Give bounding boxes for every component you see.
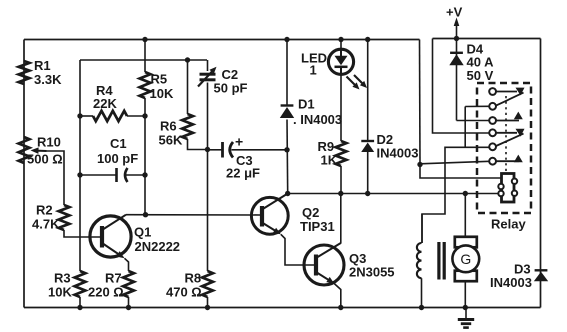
label R3: [54, 271, 71, 286]
svg-text:TIP31: TIP31: [300, 219, 335, 234]
svg-text:Q1: Q1: [134, 225, 151, 240]
node junction bus-R5: [142, 37, 147, 42]
node junction mid-vertical base wire: [143, 212, 148, 217]
svg-text:100 pF: 100 pF: [97, 151, 138, 166]
svg-text:50 V: 50 V: [467, 68, 494, 83]
node junction bus-LED: [338, 37, 343, 42]
label R9: [318, 139, 335, 154]
label R7: [105, 271, 122, 286]
svg-text:22 μF: 22 μF: [226, 166, 260, 181]
label R10: [37, 135, 61, 150]
label D2 value: [377, 146, 419, 161]
node junction C1 right: [142, 172, 147, 177]
label D4 value 50V: [467, 68, 494, 83]
wire left rail: [23, 40, 25, 308]
resistor R3: [75, 271, 86, 297]
label C1: [110, 136, 127, 151]
wire jog to relay coil top: [420, 165, 502, 179]
resistor R6: [182, 114, 193, 139]
relay mechanical linkage: [505, 96, 507, 172]
svg-text:Relay: Relay: [491, 217, 526, 232]
svg-text:470 Ω: 470 Ω: [166, 285, 202, 300]
label Relay: [491, 217, 526, 232]
wiper arrow R10: [31, 147, 47, 154]
relay contact set 2 NC: [496, 129, 525, 137]
wire Q3 emitter to ground: [334, 284, 341, 308]
svg-text:22K: 22K: [93, 96, 117, 111]
svg-text:R8: R8: [185, 271, 202, 286]
wire R10 wiper to R2: [47, 151, 65, 205]
label D3: [514, 262, 531, 277]
inductor ignition coil primary: [417, 214, 422, 308]
wire R7 bottom: [128, 297, 130, 308]
wire box top R4-C2: [80, 59, 207, 61]
label C2: [222, 67, 239, 82]
wire bottom ground bus: [24, 307, 541, 309]
svg-text:IN4003: IN4003: [490, 275, 532, 290]
label Q2 type: [300, 219, 335, 234]
relay contact set 1 NO: [496, 112, 523, 121]
label R5 value: [150, 86, 174, 101]
resistor R2: [59, 205, 70, 230]
wire relay-box left drop to contact row 4: [433, 39, 490, 134]
transistor Q2 TIP31: [251, 194, 288, 235]
svg-text:D1: D1: [298, 97, 315, 112]
relay dashed enclosure: [477, 83, 531, 213]
node junction coil-ground: [419, 305, 424, 310]
wire relay row5 riser to ignition coil: [422, 147, 489, 243]
node junction R6 top: [185, 57, 190, 62]
node junction motor drop: [463, 191, 468, 196]
wire relay rows 2-5 tie: [464, 107, 466, 148]
node junction C1 left: [77, 172, 82, 177]
wire D4 branch: [456, 39, 458, 121]
resistor R5: [140, 72, 151, 98]
svg-text:R1: R1: [34, 58, 51, 73]
wire R2 to Q1 base: [64, 230, 100, 237]
node junction R4 left: [77, 113, 82, 118]
label R1: [34, 58, 51, 73]
svg-text:+: +: [235, 134, 243, 150]
label R6: [160, 119, 177, 134]
diode D2: [361, 141, 374, 152]
svg-text:56K: 56K: [159, 133, 183, 148]
label R8: [185, 271, 202, 286]
wire Q2 collector rail to relay coil: [288, 193, 502, 195]
label D4: [467, 42, 484, 57]
relay contact set 1 NC: [496, 88, 525, 96]
resistor R8: [202, 271, 213, 297]
diode D3: [534, 270, 548, 281]
relay contact terminals: [489, 88, 496, 165]
label Q1 type: [135, 239, 181, 254]
label R9 value: [321, 153, 338, 168]
label Q1: [134, 225, 151, 240]
node junction D2 bottom: [365, 191, 370, 196]
LED LED1: [328, 49, 353, 74]
capacitor C1: [80, 168, 145, 182]
svg-text:50 pF: 50 pF: [214, 81, 248, 96]
relay contact set 2 NO: [496, 155, 523, 163]
label Q3: [349, 251, 366, 266]
svg-text:R3: R3: [54, 271, 71, 286]
wire R9 bottom: [340, 166, 342, 194]
svg-text:4.7K: 4.7K: [32, 217, 60, 232]
wire motor to ground: [464, 281, 466, 307]
node junction C2-R6-C3: [205, 147, 210, 152]
wire to relay contact row 6: [420, 161, 489, 164]
capacitor C3: [208, 142, 288, 158]
core bars: [437, 242, 446, 280]
LED light arrows: [347, 75, 368, 90]
wire D1 branch: [286, 40, 289, 194]
svg-text:R10: R10: [37, 135, 61, 150]
wire Q1 collector to Q2 base: [126, 214, 260, 216]
wire box left vertical: [79, 60, 81, 271]
transistor Q1 2N2222: [90, 215, 131, 259]
wire LED to R9: [340, 75, 342, 142]
svg-text:R5: R5: [151, 72, 168, 87]
label R2: [36, 203, 53, 218]
label LED 1: [310, 63, 317, 78]
label Q3 type: [349, 265, 395, 280]
label LED: [301, 51, 327, 66]
label C3 plus: [235, 134, 243, 150]
wire Q1 emitter to R7: [125, 258, 129, 271]
svg-text:2N3055: 2N3055: [349, 265, 395, 280]
label Q2: [302, 205, 319, 220]
label R1 value: [34, 72, 62, 87]
label D1 value: [293, 112, 342, 127]
svg-text:1: 1: [310, 63, 317, 78]
svg-text:R6: R6: [160, 119, 177, 134]
node junction R7-ground: [126, 305, 131, 310]
ground: [458, 308, 474, 328]
wire motor drop: [464, 194, 466, 238]
label R10 value: [27, 152, 63, 167]
label R3 value: [48, 285, 72, 300]
diode D4: [449, 53, 463, 66]
wire R8 bottom: [207, 297, 209, 308]
label C3: [236, 153, 253, 168]
svg-text:Q2: Q2: [302, 205, 319, 220]
wire relay box top: [433, 38, 541, 40]
svg-text:10K: 10K: [150, 86, 174, 101]
wire R6 top: [187, 60, 189, 114]
relay armature 1: [496, 93, 524, 106]
label C3 value: [226, 166, 260, 181]
svg-text:500 Ω: 500 Ω: [27, 152, 63, 167]
node junction bus-drop: [417, 162, 422, 167]
node junction +V on box top: [454, 36, 459, 41]
relay coil: [498, 174, 517, 203]
wire Q3 collector: [340, 194, 342, 244]
node junction R3-ground: [77, 305, 82, 310]
wire Q2 emitter to Q3 base: [281, 234, 314, 265]
wire top supply bus: [24, 39, 420, 41]
wire R4 row: [80, 115, 145, 117]
resistor R1: [19, 61, 30, 84]
label D2: [377, 132, 394, 147]
node +V terminal arrow: [454, 18, 460, 39]
svg-text:3.3K: 3.3K: [34, 72, 62, 87]
wire D2 branch: [367, 40, 369, 194]
node junction R9-Q3-collector: [338, 191, 343, 196]
wire D4 to relay row 3: [457, 120, 490, 122]
label C1 value: [97, 151, 138, 166]
motor G: [452, 237, 479, 281]
label R7 value: [88, 285, 124, 300]
label R4 value: [93, 96, 117, 111]
svg-text:G: G: [460, 251, 471, 267]
wire R3 bottom: [79, 297, 81, 308]
resistor R4: [93, 111, 127, 121]
resistor R7: [123, 271, 134, 297]
label +V: [446, 5, 463, 20]
resistor R9: [336, 141, 347, 166]
node junction R8-ground: [205, 305, 210, 310]
svg-text:1K: 1K: [321, 153, 338, 168]
label R8 value: [166, 285, 202, 300]
svg-text:IN4003: IN4003: [377, 146, 419, 161]
wire R6 bottom: [188, 139, 208, 150]
wire relay row2 stub: [465, 105, 489, 107]
label R4: [96, 83, 113, 98]
svg-text:R2: R2: [36, 203, 53, 218]
svg-text:2N2222: 2N2222: [135, 239, 181, 254]
wire LED branch top: [340, 40, 342, 50]
label C2 value: [214, 81, 248, 96]
node junction R4 right: [142, 113, 147, 118]
node junction bus-D1: [284, 37, 289, 42]
potentiometer R10: [19, 137, 30, 163]
wire C2 node down to R8: [207, 150, 209, 272]
label D3 value: [490, 275, 532, 290]
node junction C3-D1: [284, 147, 289, 152]
capacitor C2 trimmer: [198, 60, 217, 150]
label D1: [298, 97, 315, 112]
svg-text:10K: 10K: [48, 285, 72, 300]
svg-text:220 Ω: 220 Ω: [88, 285, 124, 300]
svg-text:+V: +V: [446, 5, 463, 20]
label R6 value: [159, 133, 183, 148]
label R2 value: [32, 217, 60, 232]
node junction motor-ground: [463, 305, 468, 310]
node junction Q2-collector-D1: [285, 191, 290, 196]
diode D1: [280, 106, 294, 119]
svg-text:C1: C1: [110, 136, 127, 151]
relay armature 2: [496, 134, 524, 146]
transistor Q3 2N3055: [304, 243, 344, 285]
svg-text:. IN4003: . IN4003: [293, 112, 342, 127]
wire supply bus drop at x420: [419, 40, 422, 165]
node junction bus-D2: [365, 37, 370, 42]
wire right rail with D3: [540, 39, 542, 308]
label D4 value 40A: [467, 55, 495, 70]
svg-text:R7: R7: [105, 271, 122, 286]
node junction Q3-emitter-ground: [338, 305, 343, 310]
label R5: [151, 72, 168, 87]
wire mid vertical R5 branch: [144, 40, 146, 215]
